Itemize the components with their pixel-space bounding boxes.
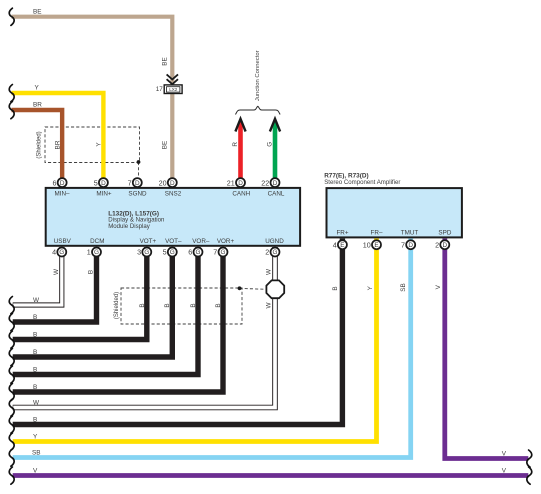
svg-text:B: B	[88, 270, 95, 274]
svg-text:B: B	[164, 303, 171, 307]
svg-text:DCM: DCM	[90, 238, 104, 245]
svg-text:BE: BE	[162, 57, 169, 66]
svg-text:B: B	[33, 349, 37, 356]
svg-text:17: 17	[156, 86, 164, 93]
display module box L132(D), L157(G)	[46, 188, 300, 246]
svg-text:VOT+: VOT+	[140, 238, 157, 245]
svg-text:10: 10	[363, 240, 371, 249]
amplifier box R77(E), R73(D)	[327, 188, 462, 237]
amplifier title	[324, 172, 400, 186]
svg-text:5: 5	[163, 248, 167, 257]
svg-text:D: D	[170, 180, 175, 187]
svg-text:20: 20	[159, 178, 167, 187]
svg-text:D: D	[408, 242, 413, 249]
pin 22 (D) display top	[261, 178, 279, 187]
svg-text:V: V	[435, 284, 442, 289]
svg-text:D: D	[442, 242, 447, 249]
svg-text:W: W	[265, 302, 272, 309]
svg-text:D: D	[135, 180, 140, 187]
wire BE (left edge to SNS2 pin 20)	[12, 17, 173, 179]
svg-text:21: 21	[227, 178, 235, 187]
svg-text:VOR+: VOR+	[217, 238, 235, 245]
svg-text:SNS2: SNS2	[165, 190, 182, 197]
svg-text:BE: BE	[33, 9, 42, 16]
pin 2 (D) amplifier	[435, 240, 449, 249]
pin 2 (G) display bottom	[265, 248, 279, 257]
svg-text:3: 3	[137, 248, 141, 257]
svg-text:B: B	[190, 303, 197, 307]
svg-text:V: V	[502, 450, 507, 457]
pin 5 (D) display top	[94, 178, 108, 187]
wire Y (left edge to MIN+ pin 5)	[12, 93, 104, 178]
wire B (VOR- pin 6 to left edge)	[13, 247, 198, 375]
svg-text:B: B	[33, 367, 37, 374]
pin 7 (D) display top	[128, 178, 142, 187]
svg-text:MIN+: MIN+	[96, 190, 112, 197]
svg-text:TMUT: TMUT	[401, 229, 419, 236]
svg-text:G: G	[221, 249, 226, 256]
wire R (CANH arrow shaft)	[238, 122, 243, 179]
svg-text:Y: Y	[33, 434, 38, 441]
pin 7 (D) amplifier	[401, 240, 415, 249]
svg-text:1: 1	[87, 248, 91, 257]
svg-text:E: E	[340, 242, 344, 249]
svg-text:Stereo Component Amplifier: Stereo Component Amplifier	[324, 179, 400, 186]
wire SB (TMUT amp pin 7 to left edge)	[13, 239, 411, 458]
svg-text:B: B	[33, 384, 37, 391]
arrowhead CANH	[235, 119, 245, 132]
svg-text:R: R	[232, 142, 239, 147]
svg-text:(Shielded): (Shielded)	[37, 131, 43, 158]
svg-text:UGND: UGND	[265, 238, 284, 245]
svg-text:V: V	[502, 467, 507, 474]
pin 4 (G) display bottom	[52, 248, 66, 257]
svg-text:V: V	[33, 468, 38, 475]
svg-text:SGND: SGND	[128, 190, 147, 197]
pin 20 (D) display top	[159, 178, 177, 187]
svg-text:BR: BR	[33, 102, 42, 109]
pin 6 (D) display top	[52, 178, 66, 187]
svg-text:CANL: CANL	[268, 190, 285, 197]
svg-text:BR: BR	[54, 140, 61, 149]
pin 7 (G) display bottom	[213, 248, 227, 257]
svg-text:7: 7	[128, 178, 132, 187]
wire B (VOT- pin 5 to left edge)	[13, 247, 173, 357]
svg-text:G: G	[266, 142, 273, 147]
pin 21 (D) display top	[227, 178, 245, 187]
svg-text:6: 6	[52, 178, 56, 187]
svg-text:D: D	[273, 180, 278, 187]
node shield2 junction dot	[238, 286, 242, 290]
svg-text:D: D	[60, 180, 65, 187]
svg-text:E: E	[374, 242, 378, 249]
svg-text:SB: SB	[400, 283, 407, 292]
svg-text:B: B	[33, 314, 37, 321]
svg-text:G: G	[196, 249, 201, 256]
svg-text:FR+: FR+	[336, 229, 348, 236]
svg-text:USBV: USBV	[54, 238, 72, 245]
svg-text:22: 22	[261, 178, 269, 187]
svg-text:7: 7	[401, 240, 405, 249]
wire G (CANL arrow shaft)	[273, 122, 278, 179]
shield box bottom (Shielded)	[121, 288, 242, 324]
svg-text:B: B	[33, 332, 37, 339]
svg-text:LX2: LX2	[169, 87, 177, 93]
svg-text:SB: SB	[32, 450, 41, 457]
connector marker chevrons above LX2	[167, 74, 178, 84]
svg-text:2: 2	[265, 248, 269, 257]
wire-break squiggles left edge bottom stack	[9, 297, 14, 485]
svg-text:B: B	[33, 417, 37, 424]
svg-text:B: B	[215, 303, 222, 307]
svg-text:FR–: FR–	[371, 229, 383, 236]
arrowhead CANL	[270, 119, 280, 132]
svg-text:VOR–: VOR–	[192, 238, 210, 245]
wire-break squiggle Y left edge	[9, 85, 14, 102]
svg-text:4: 4	[52, 248, 56, 257]
wire B (VOR+ pin 7 to left edge)	[13, 247, 223, 392]
svg-text:Y: Y	[95, 142, 102, 147]
svg-text:W: W	[53, 268, 60, 275]
connector LX2 pin 17	[156, 85, 182, 94]
svg-text:Y: Y	[35, 85, 40, 92]
svg-text:D: D	[101, 180, 106, 187]
display module pin names	[54, 190, 285, 245]
svg-text:W: W	[33, 297, 40, 304]
svg-text:VOT–: VOT–	[165, 238, 182, 245]
pin 1 (D) display bottom	[87, 248, 101, 257]
svg-text:G: G	[59, 249, 64, 256]
svg-text:7: 7	[213, 248, 217, 257]
noise filter octagon	[266, 280, 284, 298]
wire-break squiggles right edge	[527, 450, 532, 484]
svg-text:2: 2	[435, 240, 439, 249]
shield box top (Shielded)	[45, 127, 140, 163]
svg-text:G: G	[94, 249, 99, 256]
shield drain dashed wire to noise filter	[240, 287, 267, 290]
wire BR (left edge to MIN- pin 6)	[12, 110, 63, 178]
wire V (SPD amp pin 2 to right edge)	[445, 239, 529, 459]
svg-text:4: 4	[333, 240, 337, 249]
amplifier pin names	[336, 229, 451, 236]
pin 6 (G) display bottom	[188, 248, 202, 257]
pin 10 (E) amplifier	[363, 240, 381, 249]
display module title	[108, 210, 164, 229]
wire W (UGND pin 2 through noise filter to left edge)	[13, 247, 275, 408]
wire-break squiggle BR left edge	[9, 102, 14, 119]
svg-text:(Shielded): (Shielded)	[114, 292, 120, 319]
svg-text:Module Display: Module Display	[108, 223, 151, 230]
svg-text:W: W	[33, 400, 40, 407]
svg-text:B: B	[332, 286, 339, 290]
node shield1 junction dot	[137, 160, 141, 164]
wire-break squiggle BE left edge	[9, 8, 14, 25]
svg-text:CANH: CANH	[232, 190, 250, 197]
svg-text:D: D	[238, 180, 243, 187]
svg-text:SPD: SPD	[438, 229, 451, 236]
svg-text:Junction Connector: Junction Connector	[255, 50, 261, 101]
pin 5 (G) display bottom	[163, 248, 177, 257]
svg-text:G: G	[144, 249, 149, 256]
svg-text:6: 6	[188, 248, 192, 257]
svg-text:BE: BE	[162, 141, 169, 150]
svg-text:G: G	[170, 249, 175, 256]
wire B (VOT+ pin 3 to left edge)	[13, 247, 147, 340]
svg-text:5: 5	[94, 178, 98, 187]
svg-text:W: W	[265, 268, 272, 275]
wire Y (FR- amp pin 10 to left edge)	[13, 239, 377, 442]
wire W (USBV pin 4 to left edge)	[13, 247, 62, 305]
pin 3 (G) display bottom	[137, 248, 151, 257]
svg-text:MIN–: MIN–	[54, 190, 70, 197]
pin 4 (E) amplifier	[333, 240, 347, 249]
shield drain dashed wire to SGND	[138, 162, 140, 177]
svg-text:B: B	[139, 303, 146, 307]
wire B (DCM pin 1 to left edge)	[13, 247, 97, 322]
junction connector brace	[236, 106, 281, 114]
svg-text:Y: Y	[367, 285, 374, 290]
svg-text:G: G	[273, 249, 278, 256]
wire V (bottom full width)	[13, 473, 529, 478]
wire B (FR+ amp pin 4 to left edge)	[13, 239, 343, 425]
